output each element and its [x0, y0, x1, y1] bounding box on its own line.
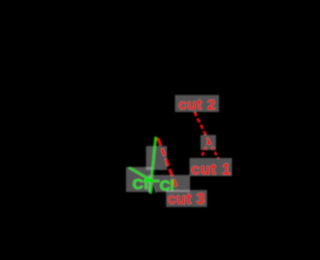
highlight box: apex bond background — [201, 135, 217, 150]
wire: green vertical bond — [150, 137, 155, 194]
wire: red dashed long bond (cut 3) — [158, 138, 178, 190]
highlight box: cut 1 label background — [190, 158, 233, 176]
wire: red dashed bond left leg (cut 1) — [201, 142, 209, 158]
wire: green diagonal bond — [129, 168, 152, 181]
wire: red dashed cut bond (cut 2) — [195, 112, 210, 142]
highlight box: cut 2 label background — [175, 95, 219, 112]
svg-text:cut 3: cut 3 — [168, 191, 206, 208]
highlight box: cut 3 label background — [166, 190, 207, 207]
svg-text:Cl: Cl — [133, 176, 149, 193]
wedge bond (black) — [151, 183, 158, 197]
svg-text:cut 2: cut 2 — [179, 97, 217, 114]
highlight box: mid bond background — [146, 146, 167, 170]
wire: red dashed bond right leg (cut 1) — [209, 142, 219, 159]
svg-text:cut 1: cut 1 — [191, 161, 231, 178]
highlight box: junction right background — [148, 175, 190, 192]
highlight box: left diagonal background — [126, 167, 152, 192]
wire: green horizontal bond — [144, 180, 160, 183]
